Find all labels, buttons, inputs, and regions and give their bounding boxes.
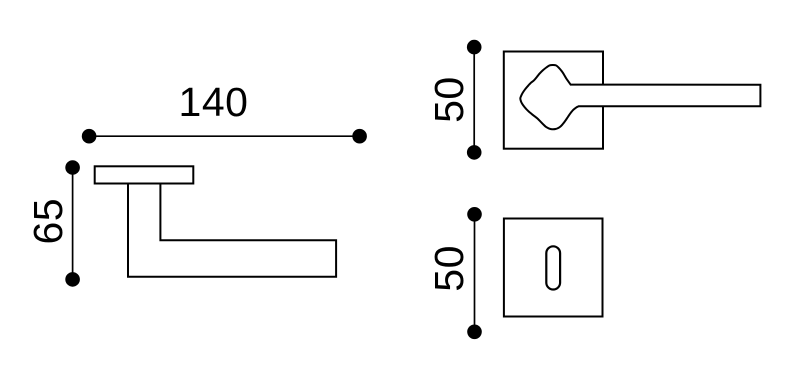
svg-text:65: 65: [25, 198, 71, 245]
svg-text:140: 140: [179, 79, 249, 125]
keyhole slot: [546, 246, 560, 289]
dimension line 140 (horizontal, side view): [82, 129, 367, 144]
rosette side view rectangle: [95, 166, 194, 183]
escutcheon square (keyhole plate): [504, 219, 603, 317]
rosette front view square: [504, 52, 603, 149]
dimension line 50 (vertical, bottom-right keyhole view): [467, 207, 482, 339]
dimension line 50 (vertical, top-right front view): [467, 40, 482, 160]
svg-text:50: 50: [426, 76, 472, 123]
handle front view (curvy base + lever bar): [520, 65, 760, 129]
handle side profile (neck + lever): [128, 184, 336, 277]
svg-text:50: 50: [426, 245, 472, 292]
dimension line 65 (vertical, side view): [65, 160, 80, 287]
